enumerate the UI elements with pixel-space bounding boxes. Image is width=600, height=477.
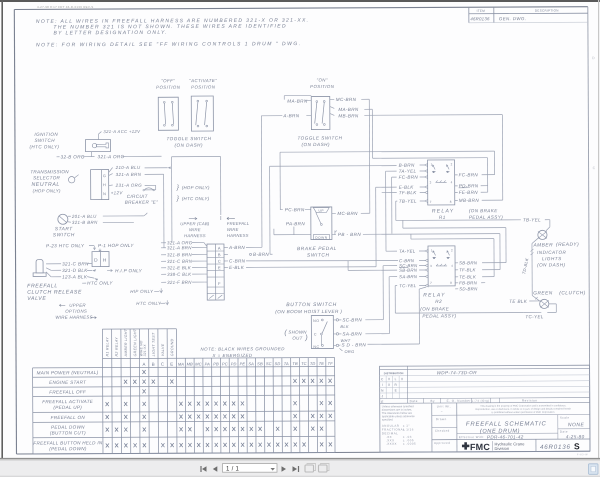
wire nest corner c [411,238,494,240]
wire nest upper corner a [403,227,506,230]
svg-text:SA-BRN: SA-BRN [399,274,418,279]
svg-text:H: H [103,258,107,264]
svg-text:(ON DASH): (ON DASH) [174,143,203,148]
svg-text:N: N [103,192,106,196]
svg-text:E: E [218,265,221,270]
svg-text:FE-BRN: FE-BRN [459,190,479,195]
svg-text:(HOP ONLY): (HOP ONLY) [182,185,210,190]
svg-text:UP: UP [318,209,324,213]
svg-text:Revision: Revision [522,398,538,402]
toolbar rotate icon disabled 1 [305,465,314,472]
button switch [311,315,333,348]
brake pedal switch [311,207,332,240]
svg-text:OPTIONS: OPTIONS [65,309,87,314]
svg-text:UPPER: UPPER [69,303,86,308]
svg-text:PB: PB [213,361,219,366]
svg-text:TF: TF [328,361,334,366]
svg-text:DESCRIPTION: DESCRIPTION [535,9,559,13]
svg-text:X = ENERGIZED: X = ENERGIZED [211,353,252,358]
approved row divider [432,438,590,441]
svg-text:FREEFALL ACTIVATE: FREEFALL ACTIVATE [42,399,94,404]
effective with row [457,432,558,434]
svg-text:ITEM: ITEM [477,9,486,13]
svg-text:SA-BRN: SA-BRN [342,331,362,336]
svg-text:E: E [395,389,398,393]
svg-text:C: C [314,333,317,337]
wire 32-B ORG left of ignition [57,156,60,158]
svg-text:4-27-98 8:17 FDT 46-R-0136: 4-27-98 8:17 FDT 46-R-0136 REV-S [37,5,93,9]
svg-text:"ACTIVATE": "ACTIVATE" [189,78,217,83]
svg-text:PE: PE [240,361,246,366]
svg-text:L-74 (Org): L-74 (Org) [472,399,490,403]
wire 321-B BRN [68,221,71,224]
svg-text:C: C [218,259,221,264]
svg-text:FMC: FMC [470,442,490,452]
svg-text:Date: Date [410,399,418,403]
svg-text:B-BRN: B-BRN [399,163,415,168]
svg-text:PDR-46-701-42: PDR-46-701-42 [487,435,524,440]
svg-text:32-B ORG: 32-B ORG [61,154,85,159]
svg-text:R1: R1 [439,215,446,220]
svg-text:SC-BRN: SC-BRN [342,317,362,322]
svg-text:ENGINE START: ENGINE START [49,380,87,385]
wire C-BRN trunk [224,260,228,262]
svg-text:TC-YEL: TC-YEL [399,283,416,288]
toolbar first-page button [202,466,207,472]
wire green light to TC-YEL [549,303,556,305]
svg-text:Effective With:: Effective With: [459,435,485,439]
svg-text:MB: MB [187,362,193,367]
svg-text:HTC ONLY: HTC ONLY [136,301,162,306]
svg-text:LIGHT TEST: LIGHT TEST [152,332,156,356]
wire 123-A BLK [46,272,51,277]
svg-text:P-23 HTC ONLY: P-23 HTC ONLY [46,243,85,248]
svg-text:MB-BRN: MB-BRN [459,198,480,203]
svg-text:+12V: +12V [111,190,124,195]
wire PC-BRN trunk to relay R1 right [280,151,494,152]
svg-text:321-A ORG: 321-A ORG [98,154,125,159]
wire 201-A BLU [68,215,71,217]
svg-text:231-A ORG: 231-A ORG [115,183,143,188]
svg-text:SA: SA [248,361,254,366]
svg-text:PB - BRN: PB - BRN [338,232,361,237]
wire B-BRN [224,253,228,255]
svg-text:321-B BRN: 321-B BRN [72,220,98,225]
svg-text:321-C BRN: 321-C BRN [167,259,193,264]
svg-text:PA-BRN: PA-BRN [286,221,305,226]
svg-text:specified.: specified. [382,418,394,422]
svg-text:321-XX: 321-XX [143,344,147,357]
svg-text:321-A BRN: 321-A BRN [116,172,142,177]
svg-text:MAIN POWER (NEUTRAL): MAIN POWER (NEUTRAL) [37,370,99,375]
svg-text:POSITION: POSITION [310,84,335,89]
svg-text:TA-YEL: TA-YEL [399,169,417,174]
svg-text:TB-YEL: TB-YEL [399,199,417,204]
svg-text:RELAY: RELAY [423,292,446,298]
svg-text:"ON": "ON" [316,77,327,82]
svg-text:MA: MA [178,362,184,367]
svg-text:GEN. DWG.: GEN. DWG. [499,16,527,21]
svg-text:PEDAL ASSY): PEDAL ASSY) [469,215,503,220]
svg-text:PEDAL DOWN: PEDAL DOWN [51,425,85,430]
svg-text:PC-BRN: PC-BRN [285,207,305,212]
wire SC-BRN from button [336,319,338,321]
svg-text:BY LETTER DESIGNATION ONLY.: BY LETTER DESIGNATION ONLY. [53,30,168,37]
svg-text:FREEFALL: FREEFALL [27,283,58,289]
svg-text:RELAY: RELAY [432,208,455,214]
svg-text:TD: TD [310,361,316,366]
svg-text:210-A BLU: 210-A BLU [115,165,141,170]
svg-text:D: D [94,258,98,264]
svg-text:is prohibited without written: is prohibited without written permission… [492,411,556,414]
svg-text:SELECTOR: SELECTOR [33,175,60,180]
svg-text:}: } [176,184,180,191]
wire A-BRN into toggle left [261,115,282,117]
wire riser to harness labels right [171,157,173,243]
unit wt drawn checked approved cells [456,403,458,452]
wire B-BRN trunk into relay R1 [270,165,397,168]
svg-text:S D - BRN: S D - BRN [341,342,366,347]
svg-text:PD: PD [231,361,237,366]
scale and date cells [557,415,559,439]
svg-text:BREAKER "E": BREAKER "E" [125,200,158,205]
relay R2 [428,246,455,286]
svg-text:SD: SD [275,361,281,366]
svg-text:CIRCUIT: CIRCUIT [127,194,149,199]
terminal strip right labels [224,246,228,248]
svg-text:321-F BRN: 321-F BRN [167,280,192,285]
svg-text:BLK: BLK [340,324,349,329]
svg-text:X: X [388,377,391,381]
svg-text:SWITCH: SWITCH [53,232,75,238]
wire TC-YEL trunk to green light [394,286,396,313]
page bottom edge shadow [0,458,600,460]
FMC logo [462,442,469,449]
svg-text:BUTTON SWITCH: BUTTON SWITCH [286,302,337,308]
svg-text:TA: TA [284,361,289,366]
svg-text:SB-BRN: SB-BRN [399,268,418,273]
svg-text:(: ( [284,330,287,337]
svg-text:B-BRN: B-BRN [253,252,269,257]
svg-text:(ON BRAKE: (ON BRAKE [420,306,449,311]
svg-text:321-A BRN: 321-A BRN [167,245,192,250]
terminal strip left wire labels [161,242,166,244]
wire MA-BRN from toggle right [330,106,335,108]
svg-text:123-A BLK: 123-A BLK [62,274,88,279]
svg-text:POSITION: POSITION [191,85,216,90]
energization matrix table [101,329,104,453]
wire 231-A ORG breaker loop [109,184,113,187]
svg-text:(ON BRAKE: (ON BRAKE [469,208,498,213]
svg-text:A-BRN: A-BRN [282,113,299,118]
svg-text:AMBER LIGHT: AMBER LIGHT [124,328,128,357]
svg-text:E: E [381,400,384,404]
svg-text:TF-BLK: TF-BLK [459,267,476,272]
svg-text:): ) [304,335,308,342]
svg-text:338-C BLK: 338-C BLK [167,272,192,277]
amber indicator light [538,230,547,239]
svg-text:TC-YEL: TC-YEL [525,314,544,319]
svg-text:SB: SB [257,361,263,366]
svg-text:B: B [152,362,155,367]
svg-text:N: N [381,389,384,393]
svg-text:C: C [161,362,165,367]
svg-text:NC: NC [313,345,319,349]
svg-text:(HTC ONLY): (HTC ONLY) [182,196,210,201]
freefall clutch release valve symbol [36,259,43,273]
window right edge [598,0,600,459]
svg-text:SD-BRN: SD-BRN [459,286,478,291]
svg-text:R2: R2 [435,299,442,304]
svg-text:CLUTCH RELEASE: CLUTCH RELEASE [27,289,82,295]
svg-text:321-B BRN: 321-B BRN [167,252,192,257]
svg-text:INDICATOR: INDICATOR [537,250,567,255]
svg-text:HTC ONLY: HTC ONLY [87,281,113,286]
relay R2 right pin labels [455,262,458,264]
wire PB-BRN from brake switch [332,233,336,235]
svg-text:GREEN LIGHT: GREEN LIGHT [133,328,137,356]
svg-text:NOTE: BLACK WIRES GROUNDED: NOTE: BLACK WIRES GROUNDED [200,346,285,351]
svg-text:E-BLK: E-BLK [399,185,415,190]
svg-text:START: START [55,226,73,232]
svg-text:HARNESS: HARNESS [184,233,206,238]
wire 321-D BLK [46,268,51,271]
svg-text:P-1 HOP ONLY: P-1 HOP ONLY [98,243,134,248]
window top edge [0,0,600,2]
tolerance note cell [431,403,433,452]
wire 321-A BRN [109,174,113,176]
wire MC-BRN riser [368,99,371,213]
svg-text:FC-BRN: FC-BRN [399,175,419,180]
start switch [58,214,68,224]
svg-text:.XXXX: .XXXX [386,442,397,446]
svg-text:Unit Wt.: Unit Wt. [437,404,451,408]
svg-text:46R0136: 46R0136 [540,444,571,451]
HTC ONLY arrow note [82,282,86,284]
svg-text:TRANSMISSION: TRANSMISSION [30,169,69,174]
svg-text:GROUND: GROUND [170,338,174,356]
svg-text:(ON DASH): (ON DASH) [301,142,330,147]
svg-text:X: X [401,377,404,381]
svg-text:TE-BLK: TE-BLK [459,274,477,279]
svg-text:FREEFALL SCHEMATIC: FREEFALL SCHEMATIC [466,421,547,427]
svg-text:UPPER (CAB): UPPER (CAB) [180,221,210,226]
svg-text:TF-BLK: TF-BLK [399,190,418,195]
svg-text:FREEFALL OFF: FREEFALL OFF [49,389,87,394]
svg-text:NEUTRAL: NEUTRAL [31,182,59,188]
svg-text:MA-BRN: MA-BRN [287,99,308,104]
wire riser 321-A BRN down [163,174,165,247]
svg-text:HIP ONLY: HIP ONLY [130,289,154,294]
svg-text:G: G [103,174,106,178]
title block revision rows [380,368,590,369]
toolbar rotate icon disabled 2 [319,465,328,472]
svg-text:WIRE: WIRE [227,227,239,232]
svg-text:H.I.P ONLY: H.I.P ONLY [115,268,143,273]
svg-text:NO: NO [313,319,319,323]
toolbar last-page button [293,466,298,472]
svg-text:VALVE: VALVE [161,343,165,356]
wire SB-BRN riser to relay R2 [505,228,507,263]
svg-text:SB-BRN: SB-BRN [459,260,478,265]
svg-text:H: H [103,183,106,187]
svg-text:1 / 1: 1 / 1 [226,466,240,472]
svg-text:J: J [381,394,383,398]
toolbar right corner button [589,464,599,475]
svg-text:TOGGLE SWITCH: TOGGLE SWITCH [297,135,342,140]
svg-text:321-E BLK: 321-E BLK [167,265,192,270]
svg-text:I: I [382,383,383,387]
svg-text:SWITCH: SWITCH [34,138,55,143]
svg-text:E: E [170,362,173,367]
svg-text:~: ~ [441,409,444,413]
svg-text:MC-BRN: MC-BRN [337,211,358,216]
connector D-H [92,252,109,267]
svg-text:GREEN: GREEN [533,290,553,296]
svg-text:321-C BRN: 321-C BRN [62,261,89,266]
svg-text:WIRE: WIRE [189,227,201,232]
svg-text:Approved: Approved [434,441,450,445]
wire MC-BRN from brake switch [332,212,336,214]
matrix X marks [142,370,145,374]
svg-text:(ON DASH): (ON DASH) [537,262,566,267]
svg-text:E. O. Number: E. O. Number [447,399,471,403]
wire MA-BRN riser right [371,109,373,158]
svg-text:C-BRN: C-BRN [229,258,246,263]
svg-text:TB: TB [292,361,298,366]
distribution mini grid [407,366,409,403]
wire FB-BRN stub [481,282,485,284]
svg-text:321-A ACC +12V: 321-A ACC +12V [103,129,141,134]
wire 210-A BLU [109,168,113,173]
svg-text:By: By [430,399,435,403]
wire E-BLK riser to relay R1 [375,187,377,266]
svg-text:(PEDAL DOWN): (PEDAL DOWN) [49,446,87,451]
svg-text:ORG: ORG [344,349,354,354]
svg-text:PA: PA [205,361,210,366]
svg-text:PEDAL ASSY): PEDAL ASSY) [422,313,456,318]
svg-text:B: B [218,252,221,257]
svg-text:± .0005: ± .0005 [403,442,416,446]
underline SC-BRN [399,267,408,269]
svg-text:TE BLK: TE BLK [509,299,528,304]
wire FC-BRN riser right of relay R1 [494,151,496,174]
HIP ONLY arrow note [107,269,112,271]
svg-text:L: L [395,377,397,381]
toolbar next-page button [282,466,287,472]
svg-text:MC-BRN: MC-BRN [336,97,357,102]
svg-text:46R0136: 46R0136 [470,16,490,21]
svg-text:Division: Division [494,446,509,451]
svg-text:HARNESS: HARNESS [227,233,249,238]
svg-text:201-A BLU: 201-A BLU [71,214,97,219]
viewer toolbar [0,460,600,477]
svg-text:Date: Date [560,430,568,434]
svg-text:"OFF": "OFF" [161,78,175,83]
svg-text:TC: TC [301,361,307,366]
svg-text:R2 RELAY: R2 RELAY [115,337,119,357]
wire TB-YEL trunk to amber light [395,201,397,220]
svg-text:R1 RELAY: R1 RELAY [105,337,109,357]
wire A-BRN riser to terminal A [260,116,263,247]
svg-text:Drawn: Drawn [436,417,447,421]
svg-text:BRAKE PEDAL: BRAKE PEDAL [297,246,337,252]
svg-text:(READY): (READY) [556,242,579,248]
svg-text:TE: TE [319,361,325,366]
svg-text:PC: PC [222,361,228,366]
svg-text:OUT: OUT [292,336,302,341]
svg-text:321-D BLK: 321-D BLK [62,268,88,273]
svg-text:MC: MC [195,361,201,366]
svg-text:TB-YEL: TB-YEL [523,217,541,222]
wire MB-BRN from toggle right [330,113,335,115]
wire SD-BRN from button [336,344,338,346]
svg-text:(PEDAL UP): (PEDAL UP) [53,405,82,410]
wire 321-A ACC +12V to ignition [97,134,99,139]
svg-text:DISTRIBUTION: DISTRIBUTION [384,371,404,375]
relay R1 right pin labels [455,174,458,176]
drawing border frame [14,7,587,10]
wire SA-BRN from button [336,333,338,335]
svg-text:TA-YEL: TA-YEL [399,249,416,254]
wire TD-BLK [532,238,539,244]
relay R1 [428,160,455,205]
svg-text:F: F [218,281,221,286]
svg-text:SWITCH: SWITCH [307,252,330,258]
svg-text:FC-BRN: FC-BRN [459,172,479,177]
svg-text:}: } [176,195,180,202]
svg-text:(HOP ONLY): (HOP ONLY) [33,188,61,193]
svg-text:A: A [218,246,221,251]
svg-text:4-25-80: 4-25-80 [566,434,585,439]
svg-text:AMBER: AMBER [532,242,553,248]
svg-text:FREEFALL: FREEFALL [227,221,250,226]
svg-text:Scale: Scale [560,416,570,420]
svg-text:(HTC ONLY): (HTC ONLY) [29,144,59,149]
svg-text:A-BRN: A-BRN [228,245,245,250]
svg-text:VALVE: VALVE [27,296,46,302]
svg-text:C: C [593,166,596,170]
window left edge [1,0,3,459]
svg-text:(ON BOOM HOIST LEVER ): (ON BOOM HOIST LEVER ) [275,309,342,314]
svg-text:FREEFALL BUTTON HELD IN: FREEFALL BUTTON HELD IN [33,440,103,445]
svg-text:C: C [381,377,384,381]
title block outline [380,365,590,452]
wire SD-BRN loop [419,287,426,289]
svg-text:E-BLK: E-BLK [229,265,245,270]
svg-text:POSITION: POSITION [156,85,181,90]
svg-text:Checked: Checked [435,429,450,433]
svg-text:S: S [574,441,580,451]
wire MA-BRN into toggle top left [284,95,311,97]
terminal strip connector [207,244,224,300]
svg-text:FB-BRN: FB-BRN [459,280,477,285]
wire PB-BRN riser to relay R2 side [499,234,501,270]
svg-text:DOWN: DOWN [315,236,328,240]
svg-text:(CLUTCH): (CLUTCH) [559,290,586,296]
svg-text:D: D [592,56,595,60]
svg-text:WIRE HARNESS: WIRE HARNESS [55,315,93,320]
item-description revision table [468,7,470,22]
toolbar prev-page button [213,466,218,472]
svg-text:MA-BRN: MA-BRN [338,107,359,112]
wire TE-BLK riser [493,239,495,277]
svg-text:LIGHTS: LIGHTS [542,256,562,261]
svg-text:FREEFALL ON: FREEFALL ON [51,415,86,420]
toolbar page number box [223,464,278,473]
svg-text:WDP-74-73D-OR: WDP-74-73D-OR [437,370,478,375]
wire E-BLK trunk [224,266,228,268]
